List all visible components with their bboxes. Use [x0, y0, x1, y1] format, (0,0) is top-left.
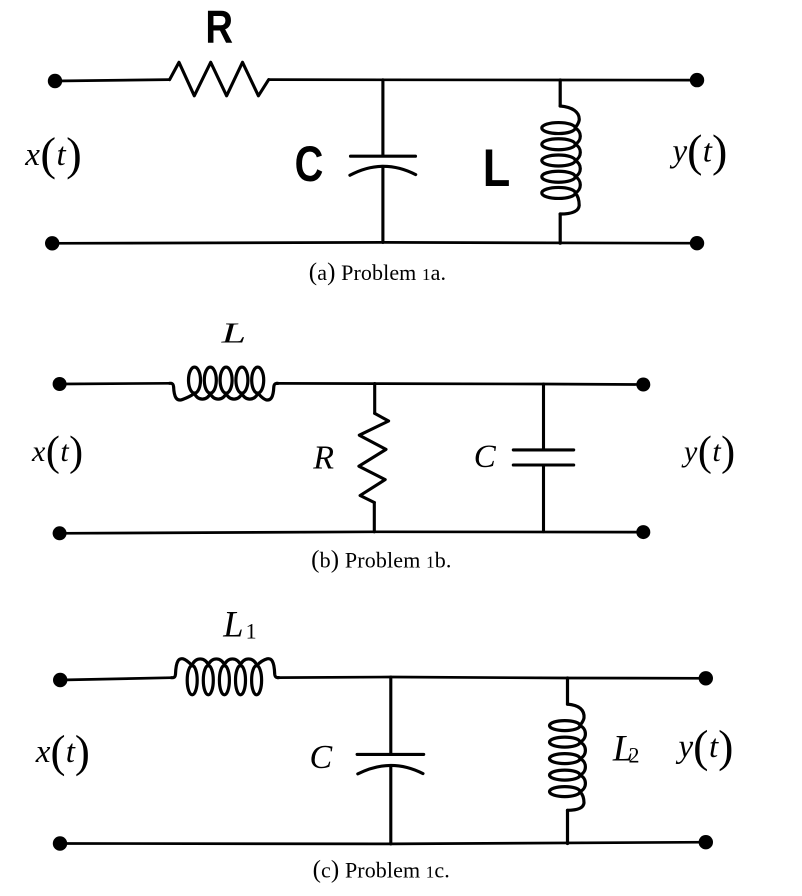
node: input top terminal (b): [53, 377, 67, 391]
node: input bottom terminal (b): [53, 526, 67, 540]
capacitor C (b) top plate: [513, 448, 573, 451]
wire: capacitor branch lower (c): [389, 766, 392, 844]
capacitor C (c) curved bottom plate: [358, 765, 423, 774]
wire: top wire (c) to output: [279, 677, 706, 678]
capacitor C (a) curved bottom plate: [350, 166, 416, 175]
node: output bottom terminal (b): [636, 525, 650, 539]
svg-text:x(t): x(t): [24, 129, 82, 181]
svg-text:C: C: [474, 439, 497, 475]
wire: bottom wire (c): [60, 842, 706, 844]
resistor R: [170, 62, 269, 96]
svg-text:C: C: [310, 739, 333, 776]
wire: top-left wire (c): [60, 678, 171, 680]
capacitor C (b) bottom plate: [513, 463, 573, 466]
node: output top terminal (b): [636, 378, 650, 392]
svg-text:C: C: [295, 136, 324, 192]
node: output top terminal (c): [699, 671, 713, 685]
svg-text:(a) Problem 1a.: (a) Problem 1a.: [309, 259, 446, 286]
node: output bottom terminal (c): [699, 835, 713, 849]
svg-text:(c) Problem 1c.: (c) Problem 1c.: [313, 856, 450, 883]
svg-text:1: 1: [246, 619, 257, 644]
wire: capacitor branch lower (a): [381, 166, 384, 242]
inductor L (b): [170, 367, 278, 400]
node: output top terminal (a): [690, 73, 704, 87]
svg-text:2: 2: [629, 742, 640, 767]
node: input top terminal (c): [53, 673, 67, 687]
svg-text:L: L: [222, 604, 243, 645]
node: input bottom terminal (c): [53, 836, 67, 850]
svg-text:R: R: [205, 1, 233, 53]
wire: top-left wire (b): [60, 382, 170, 385]
wire: capacitor branch upper (c): [389, 677, 392, 754]
svg-text:L: L: [220, 318, 246, 350]
svg-text:x(t): x(t): [31, 429, 83, 475]
wire: top wire (b) to output: [278, 383, 644, 384]
wire: C branch upper (b): [542, 384, 545, 450]
wire: bottom wire (a): [52, 241, 697, 245]
wire: C branch lower (b): [542, 465, 545, 532]
resistor R (b): [359, 413, 389, 502]
wire: R branch lower (b): [373, 503, 376, 532]
svg-text:y(t): y(t): [670, 125, 728, 176]
svg-text:R: R: [312, 439, 334, 476]
svg-text:y(t): y(t): [681, 429, 735, 475]
wire: bottom wire (b): [60, 532, 644, 534]
svg-text:x(t): x(t): [35, 727, 90, 777]
inductor L2: [550, 678, 586, 844]
svg-text:L: L: [483, 139, 511, 198]
node: input top terminal (a): [48, 74, 62, 88]
wire: capacitor branch upper (a): [381, 80, 384, 156]
wire: top-left wire (a): [55, 80, 170, 81]
inductor L (a): [542, 80, 581, 243]
capacitor C (c) top plate: [357, 753, 424, 756]
wire: top wire (a) from resistor to output: [269, 78, 697, 81]
node: output bottom terminal (a): [690, 236, 704, 250]
inductor L1: [172, 659, 279, 695]
capacitor C (a) top plate: [351, 155, 416, 158]
svg-text:(b) Problem 1b.: (b) Problem 1b.: [311, 546, 452, 573]
node: input bottom terminal (a): [45, 236, 59, 250]
wire: R branch upper (b): [373, 384, 376, 414]
svg-text:y(t): y(t): [676, 721, 734, 772]
